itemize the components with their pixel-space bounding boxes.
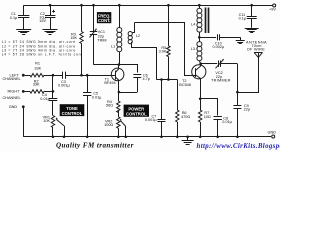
capacitor C2: [45, 5, 55, 29]
wire C6 bottom to emitter node: [119, 92, 137, 94]
node T1 emitter junction: [118, 91, 121, 94]
wire collector to VC2: [201, 63, 218, 65]
terminal RIGHT CHANNEL: [22, 90, 25, 93]
node VR2 wiper bottom: [125, 136, 128, 139]
svg-text:L4 = 5T 28 SWG on L.F.T. ferri: L4 = 5T 28 SWG on L.F.T. ferrite core: [2, 53, 83, 57]
wire T2 bias node: [156, 79, 177, 81]
svg-text:L3: L3: [191, 47, 195, 51]
node C7 bottom: [160, 136, 163, 139]
node T2 collector junction: [199, 62, 202, 65]
label T2 BC548: [179, 79, 191, 87]
svg-text:R1: R1: [35, 62, 40, 66]
label VR2 100ohm: [104, 119, 113, 127]
node C9 bottom: [236, 136, 239, 139]
node R3 top junction: [80, 4, 83, 7]
label C6 4.7p: [143, 73, 150, 81]
ground (bottom centre): [182, 137, 194, 145]
label R5 3.9K: [159, 46, 167, 54]
svg-text:0.002µ: 0.002µ: [213, 45, 226, 49]
inductor L3: [197, 37, 202, 63]
svg-text:33K: 33K: [33, 83, 40, 87]
label R1 33K: [34, 62, 41, 71]
terminal GND right: [272, 135, 275, 138]
wire L2 top to T2 base: [135, 23, 193, 76]
inductor L4 with core: [197, 5, 209, 37]
label C5 0.01u: [92, 92, 102, 100]
resistor R1: [25, 73, 53, 76]
label R7 10ohm: [204, 111, 211, 119]
wire antenna branch: [238, 58, 259, 93]
label R3 15K: [70, 33, 77, 41]
ground (under C1): [16, 30, 31, 35]
node R3 bottom junction: [80, 74, 83, 77]
capacitor C9: [233, 106, 241, 137]
transistor T1 BF494: [111, 66, 124, 92]
capacitor C5: [83, 75, 91, 137]
node VC1 top junction: [92, 4, 95, 7]
capacitor C3: [53, 72, 111, 79]
antenna symbol: [254, 52, 262, 57]
node R5 bottom: [167, 78, 170, 81]
node L1 top junction: [118, 4, 121, 7]
svg-text:CONT.: CONT.: [98, 18, 111, 23]
potentiometer VR2: [117, 117, 126, 137]
label VR1 10K: [43, 115, 51, 123]
node antenna junction: [236, 91, 239, 94]
box POWER CONTROL: [124, 105, 149, 117]
potentiometer VR1: [51, 116, 64, 137]
capacitor C11: [247, 5, 257, 28]
node L4 top junction: [198, 4, 201, 7]
svg-text:100Ω: 100Ω: [104, 123, 113, 127]
label ANTENNA 70cm OF WIRE: [246, 40, 267, 51]
label C9 22p: [244, 104, 250, 112]
node T2 emitter junction: [199, 98, 202, 101]
svg-text:OF WIRE: OF WIRE: [247, 48, 266, 52]
svg-text:22p: 22p: [244, 107, 250, 111]
svg-text:10K: 10K: [43, 119, 50, 123]
label C11 0.1u: [239, 13, 247, 21]
node R7 bottom: [199, 136, 202, 139]
svg-text:470Ω: 470Ω: [181, 115, 190, 119]
wire emitter to C8: [201, 99, 218, 116]
resistor R4: [117, 92, 120, 117]
label C4 0.01u: [40, 93, 50, 101]
node VR2 bottom: [117, 136, 120, 139]
label C7 0.001u: [145, 114, 158, 122]
svg-text:56Ω: 56Ω: [106, 104, 113, 108]
svg-text:0.01µ: 0.01µ: [92, 95, 102, 99]
label coil winding notes: [2, 40, 83, 56]
capacitor C8: [214, 117, 222, 137]
svg-text:GND: GND: [9, 105, 18, 109]
terminal GND input: [22, 105, 25, 108]
svg-text:0.1µ: 0.1µ: [239, 16, 247, 20]
svg-text:CHANNEL: CHANNEL: [3, 96, 21, 100]
label VC1 22p TRIM: [97, 30, 106, 42]
svg-text:L4: L4: [191, 22, 195, 26]
svg-text:3.9K: 3.9K: [159, 50, 167, 54]
svg-text:L1: L1: [111, 44, 115, 48]
label C8 0.01u: [222, 116, 232, 124]
svg-text:TRIM: TRIM: [97, 39, 106, 43]
label C2 10u 15V: [39, 12, 46, 23]
svg-text:0.01µ: 0.01µ: [40, 97, 50, 101]
node R1 R2 junction: [52, 74, 55, 77]
label R4 560: [106, 100, 113, 108]
svg-text:+9V: +9V: [269, 8, 276, 12]
svg-text:15V: 15V: [39, 19, 46, 23]
wire VC1 to collector node: [94, 64, 119, 66]
label R6 470ohm: [181, 111, 190, 119]
wire VC2 down to C9: [237, 64, 239, 106]
node C11 top junction: [250, 4, 253, 7]
node R6 bottom: [176, 136, 179, 139]
node C5 top junction: [86, 74, 89, 77]
capacitor C6: [133, 75, 141, 93]
node T1 collector junction: [118, 63, 121, 66]
svg-text:L2: L2: [136, 34, 140, 38]
label R2 33K: [33, 79, 40, 86]
node C8 bottom: [216, 136, 219, 139]
node VR1 wiper bottom: [63, 136, 66, 139]
svg-text:CHANNEL: CHANNEL: [3, 77, 21, 81]
svg-text:4.7p: 4.7p: [143, 77, 150, 81]
inductor L2: [128, 23, 156, 80]
svg-text:33K: 33K: [34, 66, 41, 70]
label LEFT CHANNEL: [3, 73, 21, 80]
wire audio junction column: [52, 75, 54, 98]
resistor R2: [25, 90, 53, 93]
transistor T2 BC548: [192, 64, 206, 99]
label C10 0.002u: [213, 42, 226, 50]
label T1 BF494: [104, 78, 115, 86]
ground (under C2): [43, 30, 58, 35]
wire GND input to bottom rail: [23, 107, 25, 137]
capacitor C1: [18, 5, 29, 29]
node VR1 bottom: [52, 136, 55, 139]
svg-text:0.1µ: 0.1µ: [10, 16, 18, 20]
svg-text:RIGHT: RIGHT: [8, 89, 20, 93]
label C3 0.001u: [58, 80, 71, 88]
inductor L1: [117, 5, 122, 64]
svg-text:0.01µ: 0.01µ: [222, 120, 232, 124]
trimmer capacitor VC1: [90, 5, 98, 64]
svg-text:GND: GND: [268, 130, 277, 134]
svg-text:Quality FM transmitter: Quality FM transmitter: [56, 141, 134, 149]
ground (under C11): [245, 29, 259, 33]
svg-text:10Ω: 10Ω: [204, 115, 211, 119]
node R5 top junction: [167, 4, 170, 7]
wire L4 junction to C10: [199, 37, 216, 39]
trimmer capacitor VC2: [216, 59, 238, 68]
svg-text:BF494: BF494: [104, 81, 115, 85]
wire collector node to C6: [119, 65, 138, 73]
ground (C10): [236, 37, 245, 43]
node C7 top: [160, 78, 163, 81]
capacitor C10: [218, 34, 241, 40]
svg-text:BC548: BC548: [179, 83, 191, 87]
resistor R5: [167, 5, 170, 79]
node ground stem: [186, 136, 189, 139]
resistor R6: [176, 80, 179, 137]
capacitor C7: [158, 80, 166, 137]
node C5 bottom: [86, 136, 89, 139]
terminal LEFT CHANNEL: [22, 74, 25, 77]
svg-text:CONTROL: CONTROL: [126, 111, 147, 116]
svg-text:TRIMMER: TRIMMER: [211, 78, 231, 82]
terminal +9V: [273, 4, 276, 7]
box FREQ. CONT.: [97, 12, 111, 23]
svg-text:http://www.CirKits.Blogspot: http://www.CirKits.Blogspot: [197, 143, 281, 150]
label C1 0.1u: [10, 12, 18, 20]
label VC2 22p TRIMMER: [211, 71, 231, 82]
svg-text:0.001µ: 0.001µ: [58, 83, 71, 87]
resistor R3: [80, 5, 83, 75]
resistor R7: [199, 99, 202, 137]
svg-text:0.001µ: 0.001µ: [145, 118, 158, 122]
capacitor C4: [49, 99, 58, 116]
label RIGHT CHANNEL: [3, 89, 21, 100]
wire bottom ground rail: [23, 136, 271, 138]
svg-text:CONTROL: CONTROL: [62, 111, 83, 116]
node C2 junction: [49, 4, 52, 7]
box TONE CONTROL: [60, 104, 85, 116]
wire top +9V rail: [24, 5, 273, 7]
node L4 L3 junction: [198, 36, 201, 39]
